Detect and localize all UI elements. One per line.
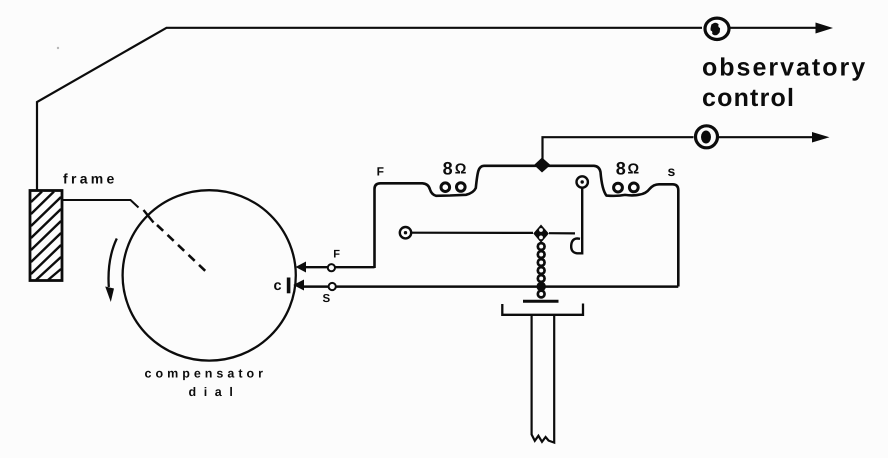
terminal above hook (circle with dot) (577, 176, 588, 187)
contact arrow F (296, 262, 307, 273)
middle wire left terminal (circle with dot) (400, 227, 411, 238)
junction diamond (534, 158, 551, 173)
svg-text:Ω: Ω (628, 162, 640, 178)
pointer lead from frame (63, 200, 139, 208)
pointer dashed line (157, 225, 208, 274)
wire F (304, 266, 375, 268)
wire S long horizontal (303, 285, 678, 288)
compensator dial circle (123, 190, 296, 360)
svg-text:observatory: observatory (702, 54, 867, 82)
top middle wire through junction (534, 166, 678, 287)
armature bar (523, 300, 559, 303)
terminal (second circled, filled dot) (696, 126, 718, 148)
frame (hatched block) (30, 191, 62, 281)
svg-text:dial: dial (189, 385, 241, 399)
coil left 8ohm (F winding) (375, 166, 535, 268)
arrow to observatory (top) (816, 23, 834, 34)
svg-text:control: control (702, 84, 795, 112)
arrow to observatory (second) (812, 132, 830, 143)
wire second observatory line (543, 137, 814, 163)
bracket tray (502, 304, 583, 315)
svg-text:S: S (323, 293, 331, 305)
svg-text:Ω: Ω (455, 162, 467, 178)
svg-text:F: F (333, 248, 340, 260)
terminal B (top circled) (705, 18, 729, 39)
wire top-left from frame to observatory line B (37, 28, 818, 191)
contact arrow S (293, 280, 304, 291)
svg-text:frame: frame (63, 170, 118, 186)
contact plate C (287, 278, 291, 294)
coil right 8ohm (S winding) loops (614, 183, 639, 192)
terminal S (329, 283, 336, 290)
pointer tick across rim (144, 210, 154, 223)
spring chain top diamond (533, 225, 549, 243)
svg-text:s: s (668, 163, 676, 179)
wire hook stem (571, 188, 582, 253)
paper speck (57, 47, 59, 49)
terminal F (328, 264, 335, 271)
middle wire to spring (412, 232, 576, 235)
rotation arrow (109, 239, 117, 288)
spring chain links (537, 242, 546, 299)
stem with break (532, 316, 555, 443)
svg-text:8: 8 (443, 159, 453, 179)
svg-text:compensator: compensator (145, 366, 268, 380)
svg-text:F: F (377, 164, 384, 178)
svg-text:c: c (274, 278, 282, 294)
svg-text:8: 8 (616, 159, 626, 179)
